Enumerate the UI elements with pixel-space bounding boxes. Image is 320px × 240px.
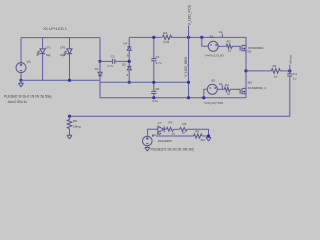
wire column D [188, 37, 190, 97]
wire V1 column bottom [20, 73, 22, 81]
resistor R2 [226, 44, 232, 48]
wire B2 left tap [204, 89, 208, 97]
net label V_LED_POS [187, 4, 191, 37]
junction D-midbus [187, 81, 190, 84]
svg-text:M2: M2 [248, 80, 253, 84]
svg-text:10: 10 [227, 92, 231, 96]
svg-text:Mg: Mg [46, 53, 51, 57]
wire column C mid [153, 61, 155, 91]
capacitor C4 [287, 74, 292, 76]
svg-text:LP2: LP2 [60, 45, 66, 49]
resistor R1 [271, 69, 280, 74]
svg-text:V_LED_NEG: V_LED_NEG [184, 56, 188, 76]
wire out to R1 [246, 70, 271, 72]
wire R6-corner [187, 129, 208, 136]
diode D4 [127, 47, 131, 51]
svg-text:C2: C2 [111, 55, 115, 59]
resistor R6 [180, 127, 188, 131]
svg-text:C8: C8 [155, 87, 159, 91]
svg-text:X1 LP+LED 1: X1 LP+LED 1 [43, 26, 67, 31]
svg-text:R2: R2 [227, 40, 231, 44]
resistor R9 [194, 134, 203, 138]
svg-text:D1: D1 [95, 67, 99, 71]
plus mark V2 [152, 135, 154, 137]
ground R8 [67, 135, 72, 139]
nmos M1 [240, 45, 246, 51]
wire C2 right [115, 60, 129, 62]
junction lowbus-R8 [68, 115, 71, 118]
LED LP1 [37, 49, 45, 56]
svg-text:C4: C4 [293, 72, 297, 76]
resistor R8 [67, 120, 71, 129]
wire LED branch 1 bottom [42, 54, 44, 81]
wire D4 stub [128, 37, 130, 46]
wire bottom-left bus [21, 79, 100, 81]
junction out node [288, 69, 291, 72]
junction C-midbus [152, 81, 155, 84]
wire top-left bus [21, 37, 100, 39]
svg-text:LP1: LP1 [45, 45, 51, 49]
wire C2 left [100, 60, 112, 62]
svg-text:1Meg: 1Meg [73, 124, 81, 128]
svg-text:4.7u: 4.7u [107, 64, 113, 68]
svg-text:1k: 1k [182, 131, 186, 135]
wire lowbus-R8 [69, 116, 71, 119]
wire D4-D5 [128, 50, 130, 66]
svg-text:V=F(x2)*100: V=F(x2)*100 [204, 101, 223, 105]
svg-text:Va: Va [219, 30, 223, 34]
wire M1 source down [245, 51, 247, 89]
svg-text:R7: R7 [169, 121, 173, 125]
junction V1-gnd [19, 79, 22, 82]
wire LED branch 2 bottom [69, 54, 71, 81]
bsource B1 [208, 41, 218, 51]
resistor R7 [166, 127, 174, 131]
voltage source V1 [16, 63, 26, 73]
nmos M2 [240, 88, 246, 94]
svg-text:.tran 0 50u 1u: .tran 0 50u 1u [7, 100, 27, 104]
wire M2 source [245, 94, 247, 98]
junction out tap [244, 69, 247, 72]
wire B1 tap [202, 37, 208, 46]
wire column C bottom [153, 94, 155, 98]
wire column A top [99, 38, 101, 62]
wire lower rail [156, 135, 194, 137]
wire V1 column top [20, 38, 22, 63]
svg-text:4.7u: 4.7u [152, 99, 158, 103]
junction C2-D column [128, 60, 131, 63]
net label +5Vout [288, 55, 292, 71]
diode D5 [127, 66, 131, 70]
svg-text:1N4148Ph: 1N4148Ph [157, 139, 172, 143]
ground lower [206, 138, 211, 142]
svg-text:1u: 1u [293, 77, 297, 81]
svg-text:C7: C7 [158, 121, 162, 125]
wire C4 down to low bus [70, 76, 290, 116]
diode C7 [157, 126, 164, 135]
capacitor C2 [113, 59, 115, 64]
wire R3-M2 gate [231, 88, 241, 90]
svg-text:Va: Va [219, 82, 223, 86]
stub net Va1 [219, 30, 223, 37]
svg-text:V2: V2 [152, 133, 156, 137]
diode D1 [98, 72, 102, 76]
wire R7-R6 [174, 128, 180, 130]
capacitor C8 [151, 91, 156, 93]
resistor R3 [224, 87, 230, 91]
junction C-topbus [152, 36, 155, 39]
wire column A low [99, 76, 101, 83]
wire V2 top [148, 129, 158, 136]
resistor R4 [163, 35, 172, 39]
svg-text:+5Vout: +5Vout [288, 55, 292, 65]
capacitor C1 [151, 59, 156, 61]
wire column A drop [100, 82, 246, 97]
junction B2-lowbus [202, 96, 205, 99]
wire mid bus y82 [100, 81, 189, 83]
svg-text:R9: R9 [195, 130, 199, 134]
stub net Va2 [219, 82, 223, 90]
svg-text:Mg: Mg [60, 53, 65, 57]
svg-text:D5: D5 [122, 63, 126, 67]
wire column C top [153, 37, 155, 58]
svg-text:1M: 1M [200, 138, 205, 142]
junction lower node [207, 134, 210, 137]
svg-text:R3: R3 [225, 83, 229, 87]
svg-text:C1: C1 [156, 55, 160, 59]
wire C4 top [289, 71, 291, 74]
wire B2-R3 [217, 88, 224, 90]
svg-text:PULSE(0 5 1M 1N 1N .5M 1M): PULSE(0 5 1M 1N 1N .5M 1M) [151, 148, 194, 152]
bsource B2 [207, 84, 217, 94]
svg-text:V_LED_POS: V_LED_POS [187, 4, 191, 25]
svg-text:R6: R6 [182, 122, 186, 126]
wire D5-bus [128, 70, 130, 82]
svg-text:FDS6680A_2: FDS6680A_2 [248, 86, 267, 90]
svg-text:PULSE(0 10 1E-6 1N 1N .5u 50u): PULSE(0 10 1E-6 1N 1N .5u 50u) [4, 94, 51, 98]
svg-text:6: 6 [127, 53, 129, 57]
svg-text:1k: 1k [172, 132, 176, 136]
svg-text:9: 9 [127, 73, 129, 77]
svg-text:V1: V1 [27, 60, 31, 64]
ground below V1 [19, 80, 24, 87]
svg-text:R8: R8 [73, 119, 77, 123]
wire column A mid [99, 61, 101, 72]
wire LED branch 1 [42, 38, 44, 49]
svg-text:10: 10 [228, 49, 232, 53]
junction D5-bus [128, 81, 131, 84]
wire top-right bus left part [129, 36, 162, 38]
wire R4 to M1 drain corner [171, 37, 246, 45]
wire R1-C4 [280, 70, 290, 72]
LED LP2 [64, 49, 72, 56]
wire R8-gnd [69, 129, 71, 136]
wire R9-junction [202, 135, 209, 137]
wire LED branch 2 [69, 38, 71, 49]
junction C-lowbus [152, 96, 155, 99]
voltage source V2 [143, 136, 153, 146]
ground V2 [145, 146, 150, 151]
svg-text:1k: 1k [274, 75, 278, 79]
junction B1 tap [200, 36, 203, 39]
wire R2-M1 gate [233, 45, 241, 47]
svg-text:B2: B2 [211, 79, 215, 83]
svg-text:R1: R1 [273, 64, 277, 68]
svg-text:V=F(x1)*100: V=F(x1)*100 [205, 53, 224, 57]
svg-text:B1: B1 [210, 35, 214, 39]
svg-text:M1: M1 [247, 50, 252, 54]
wire B1-R2 [218, 45, 226, 47]
junction D-lowbus [187, 96, 190, 99]
svg-text:0.01: 0.01 [163, 40, 169, 44]
svg-text:4.7u: 4.7u [156, 61, 162, 65]
svg-text:D4: D4 [123, 41, 127, 45]
wire C7-R7 [164, 128, 166, 130]
junction A-C2 [98, 60, 101, 63]
junction branch2-bus [68, 79, 71, 82]
junction Vled-bus [187, 36, 190, 39]
svg-text:R4: R4 [163, 31, 167, 35]
